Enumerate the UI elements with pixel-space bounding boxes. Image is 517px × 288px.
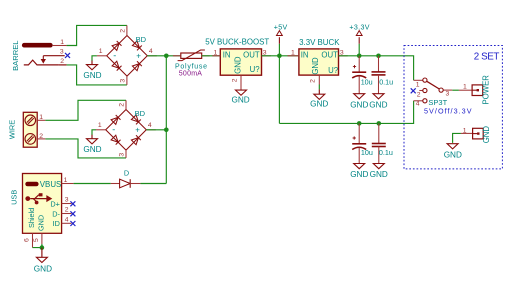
svg-text:D+: D+ (50, 199, 60, 208)
label 3.3V BUCK (299, 38, 340, 47)
junction 0.1u cap node (376, 54, 381, 59)
svg-text:5V/Off/3.3V: 5V/Off/3.3V (424, 107, 473, 116)
wire 3.3V module pin2 to ground (318, 85, 320, 90)
capacitor C3 10u (polarized, 5V rail) (352, 123, 366, 163)
pin 3 of USB (D+) (62, 197, 72, 204)
pin 6 of USB (Shield) (23, 233, 32, 247)
pin 1 of USB (VBUS) (62, 177, 74, 184)
no-connect X on D+ (70, 201, 75, 206)
svg-text:2: 2 (417, 91, 421, 98)
label SP3T (428, 98, 447, 107)
svg-text:USB: USB (9, 190, 18, 205)
diode D (111, 179, 141, 188)
ground below 5V module (231, 90, 249, 104)
svg-text:POWER: POWER (481, 75, 490, 105)
svg-text:GND: GND (231, 95, 249, 104)
svg-text:3: 3 (60, 49, 64, 56)
pin 2 of WIRE connector (37, 133, 45, 140)
svg-text:GND: GND (311, 57, 320, 75)
svg-text:GND: GND (444, 150, 462, 159)
ground below C2 (369, 94, 387, 110)
junction C4 node (377, 121, 382, 126)
label 5V/Off/3.3V (424, 107, 473, 116)
svg-text:1: 1 (99, 48, 103, 55)
junction C3 node (357, 121, 362, 126)
pin 3 of barrel jack (58, 49, 66, 66)
no-connect X on SP3T pin 2 (411, 88, 416, 93)
wire +5V node down to 5V rail (278, 56, 280, 124)
bridge rectifier BD (bottom) (106, 110, 147, 151)
svg-text:3: 3 (119, 153, 126, 157)
ground in 2SET box (444, 144, 462, 160)
pin 1 label POWER conn (463, 84, 467, 91)
svg-text:GND: GND (350, 100, 368, 109)
wire 5V rail to switch pin4 (279, 101, 413, 124)
svg-text:2: 2 (119, 103, 126, 107)
svg-text:+3.3V: +3.3V (349, 23, 370, 31)
wire bridge1 pin4 to polyfuse (147, 55, 181, 57)
pin 1 label GND conn (463, 127, 467, 134)
svg-text:1: 1 (60, 39, 64, 46)
USB trident icon (25, 193, 51, 204)
wire USB shield to gnd (33, 244, 42, 248)
no-connect X on ID (70, 221, 75, 226)
wire bridge2 pin1 to ground (92, 130, 96, 135)
svg-text:3: 3 (120, 79, 127, 83)
connector POWER (472, 85, 483, 96)
power flag +3.3V (349, 23, 370, 44)
junction +5V node (277, 54, 282, 59)
junction USB ground (40, 245, 45, 250)
wire barrel pin2 to bridge1 AC bottom (67, 65, 127, 85)
pin 1 of bridge2 (left) (96, 122, 106, 130)
svg-text:GND: GND (83, 71, 101, 80)
svg-text:OUT: OUT (321, 51, 338, 60)
pin 3 of bridge2 (bottom) (119, 150, 126, 158)
svg-text:VBUS: VBUS (40, 180, 62, 189)
pin 5 of USB (GND) (33, 233, 42, 244)
pin 2 of USB (D-) (62, 207, 72, 214)
label BARREL (11, 41, 20, 71)
ground below USB (34, 248, 52, 274)
svg-text:-: - (112, 124, 115, 134)
svg-text:0.1u: 0.1u (379, 148, 393, 157)
svg-text:1: 1 (291, 50, 295, 57)
ground below 3.3V module (310, 89, 328, 108)
svg-text:2 SET: 2 SET (474, 51, 500, 62)
pin 1 of 5V module (212, 50, 220, 57)
wire USB VBUS to diode D (74, 183, 111, 185)
value 500mA (179, 71, 203, 78)
pin 2 of bridge2 (top) (119, 100, 126, 109)
pin 3 of 5V module (262, 50, 271, 57)
svg-text:+: + (135, 126, 140, 135)
wire +3.3V stem (358, 44, 360, 56)
svg-text:-: - (113, 50, 116, 60)
capacitor C1 10u (polarized, 3.3V rail) (352, 56, 366, 94)
label POWER (481, 75, 490, 105)
value 10u (C3) (361, 148, 373, 157)
svg-text:1: 1 (39, 114, 43, 121)
svg-text:GND: GND (370, 170, 388, 179)
svg-text:D: D (124, 169, 129, 178)
polyfuse F1 (173, 50, 210, 61)
label 2 SET (474, 51, 500, 62)
wire vertical DC bus (165, 56, 167, 184)
svg-text:4: 4 (148, 122, 152, 129)
polarity marks bridge1 (113, 50, 141, 60)
pin 2 of 5V module (231, 75, 241, 90)
svg-text:Polyfuse: Polyfuse (175, 63, 208, 70)
svg-text:5V BUCK-BOOST: 5V BUCK-BOOST (205, 37, 269, 46)
wire WIRE pin1 to bridge2 AC top (45, 100, 126, 120)
pin 4 of bridge2 (right) (146, 122, 156, 130)
svg-text:2: 2 (39, 133, 43, 140)
label 5V BUCK-BOOST (205, 37, 269, 46)
svg-text:4: 4 (65, 216, 69, 223)
svg-text:GND: GND (482, 126, 491, 144)
ground below bridge1 (83, 61, 101, 80)
svg-text:U?: U? (250, 65, 261, 74)
svg-text:GND: GND (83, 145, 101, 154)
svg-text:3: 3 (65, 197, 69, 204)
pin 3 of bridge1 (bottom) (120, 76, 127, 85)
svg-text:4: 4 (149, 48, 153, 55)
svg-text:2: 2 (60, 58, 64, 65)
wire bus to diode D cathode (140, 183, 166, 185)
wire +5V stem (278, 44, 280, 56)
svg-text:OUT: OUT (243, 51, 260, 60)
label Polyfuse (175, 63, 208, 70)
svg-text:GND: GND (369, 100, 387, 109)
junction bridge1 output (164, 54, 169, 59)
wire bridge1 pin1 to ground (92, 56, 97, 61)
svg-text:3: 3 (446, 91, 450, 98)
svg-text:D-: D- (52, 209, 60, 218)
module U3 5V BUCK-BOOST body (220, 49, 261, 75)
no-connect X on D- (70, 211, 75, 216)
label BD (bottom bridge) (135, 109, 146, 118)
module 3.3V BUCK body (299, 49, 339, 75)
ground below bridge2 (83, 135, 101, 154)
dashed group box 2 SET (404, 46, 502, 169)
svg-text:10u: 10u (361, 77, 373, 86)
svg-text:GND: GND (233, 56, 242, 74)
label USB (9, 190, 18, 205)
svg-text:1: 1 (463, 127, 467, 134)
svg-text:ID: ID (53, 219, 60, 228)
label GND connector (482, 126, 491, 144)
svg-text:1: 1 (98, 122, 102, 129)
pin 1 of 3.3V module (288, 50, 299, 57)
wire 3.3V OUT to switch pin1 (339, 56, 414, 81)
value 0.1u (C2) (379, 77, 393, 86)
pin 4 of USB (ID) (62, 216, 72, 223)
connector GND (473, 128, 484, 139)
svg-text:+5V: +5V (274, 23, 288, 31)
pin 4 of bridge1 (right) (147, 48, 157, 56)
connector J2 WIRE screw terminal (23, 112, 37, 147)
wire gnd symbol to GND pin (453, 133, 473, 143)
svg-text:1: 1 (463, 84, 467, 91)
svg-text:0.1u: 0.1u (379, 77, 393, 86)
connector USB body (23, 174, 62, 234)
svg-text:6: 6 (23, 238, 30, 242)
svg-text:BD: BD (136, 35, 147, 44)
pin 1 of WIRE connector (37, 114, 45, 121)
svg-text:GND: GND (37, 215, 46, 231)
svg-text:+: + (136, 52, 141, 61)
svg-text:GND: GND (34, 264, 52, 273)
value 0.1u (C4) (379, 148, 393, 157)
svg-text:2: 2 (65, 207, 69, 214)
svg-text:GND: GND (310, 100, 328, 109)
svg-text:1: 1 (214, 50, 218, 57)
no-connect X on barrel pin 3 (65, 53, 70, 58)
svg-text:BARREL: BARREL (11, 41, 20, 71)
wire polyfuse to 5V module IN (202, 55, 221, 57)
svg-text:Shield: Shield (27, 208, 36, 228)
label BD (top bridge) (136, 35, 147, 44)
svg-text:10u: 10u (361, 148, 373, 157)
svg-text:WIRE: WIRE (8, 120, 17, 139)
svg-text:3.3V BUCK: 3.3V BUCK (299, 38, 340, 47)
svg-text:2: 2 (120, 29, 127, 33)
ground below C4 (370, 164, 388, 180)
label D (124, 169, 129, 178)
ground below C1 (350, 94, 368, 110)
svg-text:1: 1 (416, 81, 420, 88)
wire SP3T common to POWER pin (452, 89, 472, 91)
junction bridge2 output (164, 128, 169, 133)
svg-text:1: 1 (64, 177, 68, 184)
connector J1 BARREL barrel-jack symbol (22, 43, 65, 65)
pin 2 of bridge1 (top) (120, 25, 127, 35)
polarity marks bridge2 (112, 124, 140, 134)
svg-text:IN: IN (301, 51, 309, 60)
pin 1 of barrel jack (53, 39, 67, 46)
wire bridge2 pin4 to bus (146, 129, 166, 131)
pin labels of SP3T (416, 81, 450, 107)
svg-text:4: 4 (416, 101, 420, 108)
bridge rectifier BD (top) (107, 36, 148, 77)
switch SW SP3T (414, 78, 453, 103)
svg-text:2: 2 (309, 79, 316, 83)
svg-text:5: 5 (33, 238, 40, 242)
ground below C3 (350, 164, 368, 180)
pin 3 of 3.3V module (339, 50, 348, 57)
pin 2 of 3.3V module (309, 75, 319, 84)
wire 5V OUT to 3.3V IN (262, 55, 299, 57)
capacitor C4 0.1u (5V rail) (372, 123, 386, 163)
wire barrel pin1 to bridge1 AC top (67, 25, 127, 45)
svg-text:GND: GND (350, 170, 368, 179)
svg-text:BD: BD (135, 109, 146, 118)
junction +3.3V node (357, 54, 362, 59)
capacitor C2 0.1u (3.3V rail) (372, 56, 386, 94)
value 10u (C1) (361, 77, 373, 86)
wire WIRE pin2 to bridge2 AC bottom (45, 139, 126, 158)
pin 1 of bridge1 (left) (97, 48, 107, 56)
label WIRE (8, 120, 17, 139)
svg-text:500mA: 500mA (179, 71, 203, 78)
svg-text:2: 2 (231, 78, 238, 82)
svg-text:IN: IN (223, 51, 231, 60)
power flag +5V (274, 23, 288, 44)
svg-text:U?: U? (328, 66, 339, 75)
